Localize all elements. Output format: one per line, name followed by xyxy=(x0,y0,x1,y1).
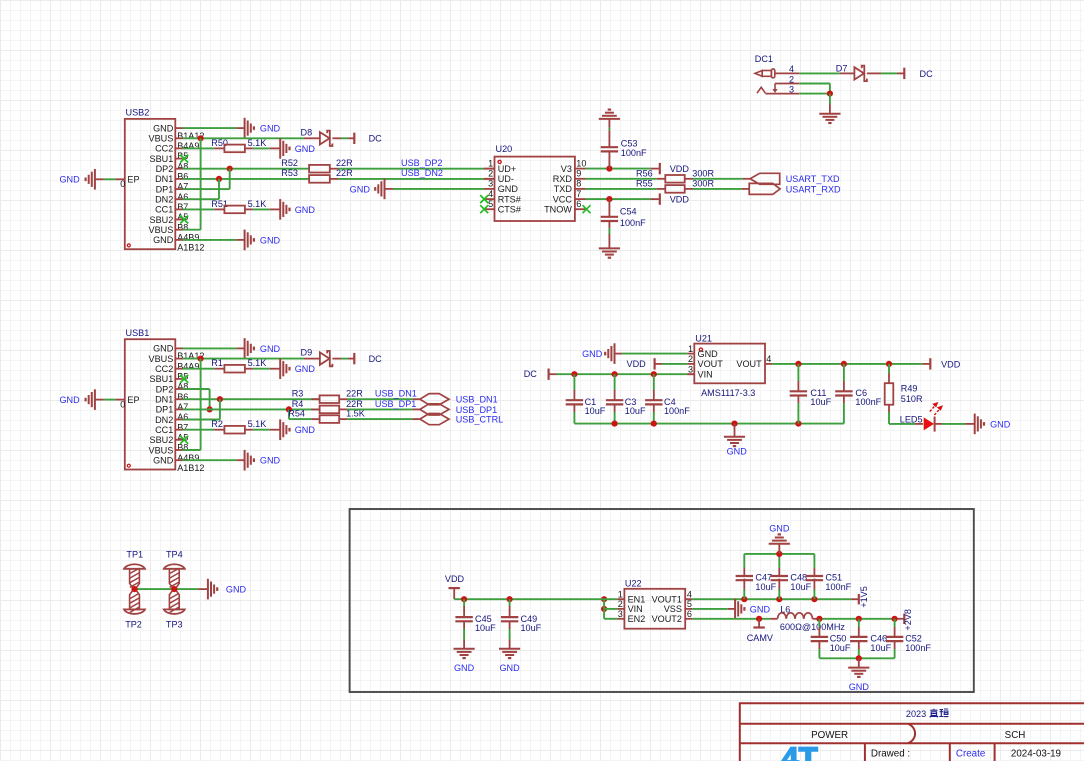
capacitor C46 10uF xyxy=(858,619,860,627)
svg-text:A8: A8 xyxy=(177,382,188,392)
capacitor C4 100nF xyxy=(653,374,655,390)
wire DN2 row xyxy=(183,419,220,421)
wire LED to ground xyxy=(935,423,942,425)
svg-text:VDD: VDD xyxy=(670,164,690,174)
wire GND top xyxy=(183,347,237,349)
svg-text:AMS1117-3.3: AMS1117-3.3 xyxy=(701,388,755,398)
wire pin2 to pin3 vertical xyxy=(829,84,831,94)
svg-text:GND: GND xyxy=(59,395,80,405)
svg-text:V3: V3 xyxy=(561,164,572,174)
svg-text:+1V5: +1V5 xyxy=(859,586,869,608)
port USB_CTRL xyxy=(420,414,449,425)
no-connect X TNOW xyxy=(583,205,591,213)
svg-text:RTS#: RTS# xyxy=(498,194,522,204)
power flag DC xyxy=(353,353,355,364)
svg-text:10uF: 10uF xyxy=(830,643,851,653)
wire CC2 to R1 xyxy=(183,368,215,370)
svg-text:GND: GND xyxy=(727,446,748,456)
svg-text:R55: R55 xyxy=(636,179,653,189)
wire DP2-DP1 vertical xyxy=(229,169,231,189)
svg-text:7: 7 xyxy=(576,189,581,199)
ground CC1 xyxy=(279,419,281,440)
svg-text:10uF: 10uF xyxy=(585,406,606,416)
svg-text:U20: U20 xyxy=(496,144,513,154)
junction C52 xyxy=(892,616,898,622)
svg-text:DN1: DN1 xyxy=(155,174,173,184)
svg-text:B7: B7 xyxy=(177,422,188,432)
svg-text:R4: R4 xyxy=(292,399,304,409)
svg-text:GND: GND xyxy=(350,184,371,194)
wire V3 to VDD xyxy=(586,168,651,170)
wire TXD to R55 xyxy=(586,188,657,190)
svg-text:5: 5 xyxy=(488,199,493,209)
svg-text:B4A9: B4A9 xyxy=(177,361,199,371)
wire EN1-EN2 vertical xyxy=(603,599,605,619)
wire bottom rail C50-C52 xyxy=(819,657,894,659)
svg-text:GND: GND xyxy=(295,364,316,374)
svg-text:USART_TXD: USART_TXD xyxy=(786,174,840,184)
svg-text:R2: R2 xyxy=(211,419,223,429)
capacitor C47 10uF xyxy=(743,590,745,600)
svg-text:UD+: UD+ xyxy=(498,164,516,174)
junction rail C4 xyxy=(651,421,657,427)
wire DN1-DN2 vertical xyxy=(218,179,220,199)
ground at EP xyxy=(94,389,96,410)
svg-text:A4B9: A4B9 xyxy=(177,233,199,243)
junction rail gnd xyxy=(731,421,737,427)
svg-text:D8: D8 xyxy=(301,127,313,137)
ground CC2 xyxy=(279,358,281,379)
svg-text:TP1: TP1 xyxy=(126,549,143,559)
power flag DC xyxy=(353,133,355,144)
svg-text:22R: 22R xyxy=(336,158,353,168)
wire EP to GND xyxy=(104,178,116,180)
junction rail C11 xyxy=(795,421,801,427)
svg-text:510R: 510R xyxy=(901,394,923,404)
LED5 arrows xyxy=(930,403,942,415)
svg-text:DN2: DN2 xyxy=(155,415,173,425)
junction C47 xyxy=(741,596,747,602)
power flag DC top xyxy=(903,68,905,79)
svg-text:4T: 4T xyxy=(782,740,818,761)
junction TP3 xyxy=(171,586,177,592)
wire rail to bottom ground xyxy=(858,658,860,667)
ground CC2 xyxy=(279,138,281,159)
svg-text:DC: DC xyxy=(920,69,934,79)
wire CC2 to R50 xyxy=(183,147,215,149)
junction VBUS xyxy=(198,356,204,362)
wire VBUS bottom xyxy=(183,449,201,451)
wire R1 to ground xyxy=(245,368,253,370)
svg-text:CAMV: CAMV xyxy=(747,633,774,643)
wire R54 to USB_CTRL xyxy=(339,418,347,420)
svg-text:VDD: VDD xyxy=(627,359,647,369)
svg-text:5.1K: 5.1K xyxy=(248,419,267,429)
wire R51 to ground xyxy=(245,208,253,210)
no-connect X SBU1 xyxy=(180,155,188,163)
junction bottom rail xyxy=(856,655,862,661)
power flag VDD top xyxy=(659,163,661,174)
svg-text:SBU1: SBU1 xyxy=(150,374,174,384)
port USART_TXD xyxy=(750,173,780,184)
ground C45 xyxy=(454,648,475,650)
ground bottom xyxy=(244,450,246,471)
wire U20 GND xyxy=(385,188,394,190)
svg-text:GND: GND xyxy=(260,456,281,466)
svg-text:8: 8 xyxy=(576,179,581,189)
DC1 pin 3 sleeve xyxy=(757,87,765,93)
svg-text:A7: A7 xyxy=(177,402,188,412)
svg-text:VOUT: VOUT xyxy=(698,359,724,369)
svg-text:EN1: EN1 xyxy=(628,595,646,605)
port USART_RXD xyxy=(749,183,780,194)
svg-text:VCC: VCC xyxy=(553,194,573,204)
svg-text:10uF: 10uF xyxy=(790,582,811,592)
wire VBUS to diode xyxy=(183,358,305,360)
power flag VDD bottom xyxy=(659,193,661,204)
svg-text:100nF: 100nF xyxy=(825,582,851,592)
wire to VIN xyxy=(604,608,617,610)
svg-text:DC: DC xyxy=(369,354,383,364)
svg-text:R51: R51 xyxy=(211,199,228,209)
ground at U20 GND pin xyxy=(384,179,386,200)
svg-text:0: 0 xyxy=(120,179,125,189)
svg-text:VDD: VDD xyxy=(670,195,690,205)
wire diode to DC flag xyxy=(332,137,341,139)
junction DP1 to R54 xyxy=(286,406,292,412)
svg-text:TXD: TXD xyxy=(554,184,573,194)
junction DN1 xyxy=(216,176,222,182)
capacitor C45 10uF xyxy=(463,599,465,606)
ground below C46 xyxy=(848,667,869,669)
DC1 switch arm xyxy=(774,84,776,92)
svg-text:D7: D7 xyxy=(836,64,848,74)
svg-text:DP2: DP2 xyxy=(156,164,174,174)
wire DC to VIN xyxy=(549,373,557,375)
svg-text:10uF: 10uF xyxy=(521,623,542,633)
svg-text:SBU2: SBU2 xyxy=(150,435,174,445)
junction C45 xyxy=(461,596,467,602)
svg-text:GND: GND xyxy=(153,235,174,245)
wire VBUS vertical xyxy=(200,359,202,450)
junction C46 xyxy=(856,616,862,622)
svg-text:GND: GND xyxy=(698,349,719,359)
svg-text:22R: 22R xyxy=(346,399,363,409)
svg-text:VDD: VDD xyxy=(445,574,465,584)
svg-text:300R: 300R xyxy=(692,179,714,189)
svg-text:Create: Create xyxy=(956,749,986,760)
svg-text:A6: A6 xyxy=(177,192,188,202)
capacitor C54 100nF xyxy=(608,199,610,217)
svg-text:DP1: DP1 xyxy=(156,405,174,415)
capacitor C6 100nF xyxy=(843,364,845,381)
svg-text:A4B9: A4B9 xyxy=(177,453,199,463)
wire R49 to LED xyxy=(888,405,890,412)
svg-text:GND: GND xyxy=(849,682,870,692)
port USB_DN1 xyxy=(420,394,449,405)
wire VBUS bottom xyxy=(183,229,201,231)
svg-text:DC1: DC1 xyxy=(755,54,773,64)
capacitor C11 10uF xyxy=(797,364,799,381)
svg-text:10uF: 10uF xyxy=(870,643,891,653)
wire D7 to DC flag xyxy=(867,72,881,74)
svg-text:USB_DP1: USB_DP1 xyxy=(375,399,416,409)
svg-text:5.1K: 5.1K xyxy=(248,358,267,368)
svg-text:USB_DN1: USB_DN1 xyxy=(456,395,498,405)
svg-text:GND: GND xyxy=(226,585,247,595)
wire U21 GND pin xyxy=(615,353,623,355)
junction C49 xyxy=(507,596,513,602)
power flag VDD output xyxy=(929,358,931,369)
svg-text:USB_DP2: USB_DP2 xyxy=(401,158,442,168)
wire DP2 row xyxy=(183,168,310,170)
svg-text:VOUT1: VOUT1 xyxy=(652,595,682,605)
wire DN1 row xyxy=(183,178,310,180)
junction DN1 xyxy=(217,396,223,402)
svg-text:USART_RXD: USART_RXD xyxy=(786,184,841,194)
junction CAMV xyxy=(756,616,762,622)
junction DP1 xyxy=(207,406,213,412)
capacitor C49 10uF xyxy=(509,599,511,606)
svg-text:USB_DN2: USB_DN2 xyxy=(401,168,443,178)
ground U21 rail xyxy=(724,436,745,438)
svg-text:5.1K: 5.1K xyxy=(248,138,267,148)
wire R55 to USART_RXD xyxy=(685,188,693,190)
svg-text:B8: B8 xyxy=(177,222,188,232)
svg-text:A6: A6 xyxy=(177,412,188,422)
junction DC1 gnd xyxy=(827,91,833,97)
wire R54 row xyxy=(289,418,312,420)
svg-text:R50: R50 xyxy=(211,138,228,148)
wire CC1 to R51 xyxy=(183,208,215,210)
svg-text:2: 2 xyxy=(618,599,623,609)
wire testpoints to ground xyxy=(135,588,199,590)
wire VCC to VDD xyxy=(586,198,651,200)
port USB_DP1 xyxy=(420,404,449,415)
svg-text:4: 4 xyxy=(488,189,493,199)
svg-text:B4A9: B4A9 xyxy=(177,141,199,151)
svg-text:GND: GND xyxy=(454,663,475,673)
svg-text:SBU2: SBU2 xyxy=(150,215,174,225)
ground LED xyxy=(974,414,976,435)
wire VDD to VOUT pin2 xyxy=(655,363,662,365)
svg-text:GND: GND xyxy=(260,344,281,354)
svg-text:SCH: SCH xyxy=(1005,730,1026,741)
svg-text:GND: GND xyxy=(260,124,281,134)
svg-text:A8: A8 xyxy=(177,161,188,171)
svg-text:10uF: 10uF xyxy=(475,623,496,633)
wire DN1 row xyxy=(183,398,320,400)
junction C50 xyxy=(816,616,822,622)
svg-text:VBUS: VBUS xyxy=(149,134,174,144)
wire rail to top ground xyxy=(778,544,780,554)
svg-text:DC: DC xyxy=(369,134,383,144)
capacitor C52 100nF xyxy=(894,619,896,627)
power flag +1V5 xyxy=(858,594,860,604)
svg-text:10uF: 10uF xyxy=(625,406,646,416)
junction C6 top xyxy=(841,361,847,367)
svg-text:R3: R3 xyxy=(292,389,304,399)
wire VOUT1 rail xyxy=(692,598,851,600)
no-connect X CTS# xyxy=(480,205,488,213)
svg-text:VIN: VIN xyxy=(628,604,643,614)
no-connect X SBU2 xyxy=(180,216,188,224)
svg-text:GND: GND xyxy=(990,419,1011,429)
svg-text:RXD: RXD xyxy=(553,174,573,184)
svg-text:GND: GND xyxy=(59,175,80,185)
svg-text:2024-03-19: 2024-03-19 xyxy=(1011,749,1061,760)
svg-text:GND: GND xyxy=(769,524,790,534)
wire R3 to USB_DN1 xyxy=(339,398,347,400)
junction top rail xyxy=(776,551,782,557)
svg-text:22R: 22R xyxy=(346,389,363,399)
wire R4 to USB_DP1 xyxy=(339,408,347,410)
ground testpoints xyxy=(207,579,209,600)
wire VBUS to diode xyxy=(183,137,305,139)
wire EP to GND xyxy=(104,399,116,401)
svg-text:USB2: USB2 xyxy=(126,108,150,118)
ground top xyxy=(244,338,246,359)
ground above C48 xyxy=(769,543,790,545)
junction VIN xyxy=(601,606,607,612)
svg-text:1: 1 xyxy=(688,344,693,354)
svg-text:POWER: POWER xyxy=(811,730,848,741)
power flag CAMV xyxy=(758,619,760,628)
ground rail bottom xyxy=(574,423,844,425)
wire VOUT to VDD xyxy=(772,363,922,365)
svg-text:DN1: DN1 xyxy=(155,395,173,405)
svg-text:SBU1: SBU1 xyxy=(150,154,174,164)
wire USB_DP2 xyxy=(330,168,338,170)
svg-text:B6: B6 xyxy=(177,392,188,402)
svg-text:D9: D9 xyxy=(301,348,313,358)
svg-text:100nF: 100nF xyxy=(621,148,647,158)
svg-text:600Ω@100MHz: 600Ω@100MHz xyxy=(780,622,846,632)
svg-text:A7: A7 xyxy=(177,182,188,192)
svg-text:TP2: TP2 xyxy=(125,620,142,630)
capacitor C3 10uF xyxy=(614,374,616,390)
junction EN1 xyxy=(601,596,607,602)
svg-text:GND: GND xyxy=(582,349,603,359)
svg-text:+2V8: +2V8 xyxy=(903,609,913,631)
svg-text:10uF: 10uF xyxy=(755,582,776,592)
svg-text:EP: EP xyxy=(127,395,139,405)
svg-text:0: 0 xyxy=(120,399,125,409)
svg-text:R1: R1 xyxy=(211,358,223,368)
wire DP2 row xyxy=(183,388,210,390)
svg-text:U22: U22 xyxy=(625,579,642,589)
svg-text:100nF: 100nF xyxy=(664,406,690,416)
svg-text:TP3: TP3 xyxy=(166,620,183,630)
wire DP1 row xyxy=(183,188,230,190)
junction C3 xyxy=(612,371,618,377)
svg-text:VSS: VSS xyxy=(664,604,682,614)
svg-text:B6: B6 xyxy=(177,172,188,182)
junction C11 top xyxy=(795,361,801,367)
ground CC1 xyxy=(279,199,281,220)
svg-text:6: 6 xyxy=(576,199,581,209)
wire VOUT2 row xyxy=(692,618,770,620)
svg-text:CTS#: CTS# xyxy=(498,205,522,215)
svg-text:2: 2 xyxy=(688,354,693,364)
junction VBUS xyxy=(198,135,204,141)
wire CC1 to R2 xyxy=(183,429,215,431)
wire VBUS vertical xyxy=(200,138,202,229)
junction R49 top xyxy=(886,361,892,367)
svg-text:C54: C54 xyxy=(620,207,637,217)
svg-text:6: 6 xyxy=(687,609,692,619)
svg-text:U21: U21 xyxy=(695,334,712,344)
svg-text:R54: R54 xyxy=(288,409,305,419)
resistor R49 510R xyxy=(888,364,890,374)
title CJK glyphs xyxy=(930,709,949,718)
svg-text:TP4: TP4 xyxy=(166,549,183,559)
svg-text:9: 9 xyxy=(576,169,581,179)
capacitor C48 10uF xyxy=(778,590,780,600)
svg-text:DP2: DP2 xyxy=(156,384,174,394)
svg-text:10uF: 10uF xyxy=(810,397,831,407)
no-connect X SBU2 xyxy=(180,436,188,444)
power flag +2V8 xyxy=(903,614,905,624)
wire VSS to ground xyxy=(692,608,728,610)
svg-text:VBUS: VBUS xyxy=(149,225,174,235)
svg-text:USB_CTRL: USB_CTRL xyxy=(456,415,504,425)
capacitor C51 100nF xyxy=(813,590,815,600)
svg-text:3: 3 xyxy=(488,179,493,189)
junction VCC C54 xyxy=(606,196,612,202)
svg-text:4: 4 xyxy=(766,354,771,364)
junction V3 C53 xyxy=(606,166,612,172)
svg-text:R49: R49 xyxy=(901,383,918,393)
svg-text:USB1: USB1 xyxy=(126,328,150,338)
capacitor C1 10uF xyxy=(573,374,575,390)
svg-text:1: 1 xyxy=(488,158,493,168)
wire R50 to ground xyxy=(245,147,253,149)
svg-text:GND: GND xyxy=(499,663,520,673)
svg-text:VBUS: VBUS xyxy=(149,445,174,455)
no-connect X SBU1 xyxy=(180,375,188,383)
no-connect X RTS# xyxy=(480,195,488,203)
ground above C53 xyxy=(599,118,620,120)
svg-text:R56: R56 xyxy=(636,169,653,179)
title block frame xyxy=(740,703,1084,761)
wire USB_DN2 xyxy=(330,178,338,180)
svg-text:GND: GND xyxy=(498,184,519,194)
svg-text:3: 3 xyxy=(688,364,693,374)
svg-text:4: 4 xyxy=(687,589,692,599)
svg-text:5.1K: 5.1K xyxy=(248,199,267,209)
ground C49 xyxy=(499,648,520,650)
svg-text:300R: 300R xyxy=(692,169,714,179)
svg-text:A1B12: A1B12 xyxy=(177,243,204,253)
svg-text:CC2: CC2 xyxy=(155,364,173,374)
svg-text:LED5: LED5 xyxy=(900,414,923,424)
capacitor C50 10uF xyxy=(818,619,820,627)
svg-text:100nF: 100nF xyxy=(620,218,646,228)
svg-text:TNOW: TNOW xyxy=(544,205,572,215)
wire DC1 to ground xyxy=(829,94,831,105)
svg-text:Drawed :: Drawed : xyxy=(871,749,910,760)
svg-text:22R: 22R xyxy=(336,168,353,178)
wire GND bottom xyxy=(183,239,237,241)
svg-text:2023: 2023 xyxy=(906,709,926,719)
svg-text:VOUT2: VOUT2 xyxy=(652,614,682,624)
svg-text:VBUS: VBUS xyxy=(149,354,174,364)
junction C1 xyxy=(571,371,577,377)
svg-text:GND: GND xyxy=(295,205,316,215)
svg-text:VIN: VIN xyxy=(698,370,713,380)
svg-text:2: 2 xyxy=(488,169,493,179)
